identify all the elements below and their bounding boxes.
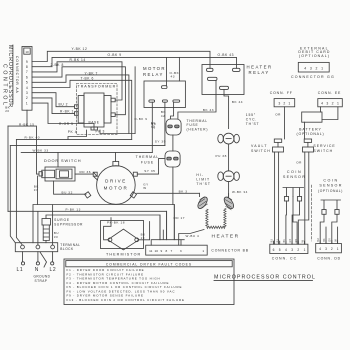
heater relay K2 — [202, 64, 273, 94]
svg-text:3: 3 — [278, 101, 280, 105]
svg-text:2: 2 — [283, 101, 285, 105]
svg-text:TRANSFORMER: TRANSFORMER — [78, 85, 117, 89]
wires EE to battery — [321, 107, 338, 120]
svg-text:1: 1 — [26, 101, 28, 105]
svg-text:5: 5 — [26, 81, 28, 85]
svg-text:20: 20 — [5, 109, 9, 113]
svg-text:BK 44: BK 44 — [232, 100, 243, 104]
svg-text:42: 42 — [161, 114, 165, 118]
svg-text:BU 32: BU 32 — [62, 190, 73, 194]
svg-text:MOTOR: MOTOR — [104, 186, 129, 191]
svg-text:11: 11 — [149, 249, 152, 253]
svg-text:5: 5 — [279, 248, 281, 252]
svg-text:CYC.: CYC. — [246, 118, 257, 122]
svg-text:BU: BU — [317, 238, 320, 242]
svg-text:R-BK 40: R-BK 40 — [25, 136, 41, 140]
wire PK 3 — [100, 130, 135, 134]
svg-text:O-BK 9: O-BK 9 — [134, 117, 147, 121]
wire thermal fuse heater to thermal fuse — [172, 135, 174, 151]
svg-text:THERMAL: THERMAL — [136, 155, 160, 159]
svg-text:RD: RD — [295, 239, 298, 243]
connector BB — [146, 205, 208, 256]
microprocessor control title (bottom) — [214, 274, 316, 280]
connector AA — [22, 47, 32, 111]
svg-text:W-BK 33: W-BK 33 — [33, 149, 49, 153]
svg-text:F13 - BLOCKED COIN 2 OR CONTR: F13 - BLOCKED COIN 2 OR CONTROL CIRCUIT … — [67, 298, 185, 302]
motor relay K1 — [143, 66, 185, 107]
CC pin stubs — [274, 241, 305, 244]
wire BK 44 (heater relay to cycling thermostat) — [224, 89, 229, 128]
wire BU 2 (AA pin3 to transformer) — [32, 93, 75, 107]
svg-text:TH’ST: TH’ST — [246, 122, 260, 126]
external debit card connector GG (optional) — [298, 46, 330, 58]
svg-text:(OPTIONAL): (OPTIONAL) — [296, 132, 324, 136]
thermistor enclosure — [101, 221, 144, 249]
wire T-BK 6 — [32, 80, 132, 139]
svg-text:4: 4 — [319, 247, 321, 251]
svg-text:BK: BK — [323, 238, 326, 242]
svg-text:GY: GY — [289, 239, 292, 243]
svg-text:FUSE: FUSE — [141, 160, 154, 164]
ground strap — [40, 252, 47, 267]
svg-text:4: 4 — [304, 66, 306, 70]
wire R-BK 1 (AA pin2 to transformer) — [32, 98, 75, 114]
wire O-BK 9 / O-BK 43 (AA to motor relay coil and heater relay) — [32, 57, 237, 85]
svg-text:8: 8 — [26, 65, 28, 69]
thermistor RT1 — [104, 218, 150, 250]
svg-text:BK 3: BK 3 — [179, 190, 188, 194]
battery (optional) — [302, 112, 322, 122]
wire BK 3 (motor to heater) — [137, 192, 200, 194]
svg-text:W: W — [143, 186, 146, 190]
svg-text:4: 4 — [26, 86, 28, 90]
svg-text:HEATER: HEATER — [247, 64, 273, 69]
svg-text:37: 37 — [34, 188, 38, 192]
wire to motor relay coil 2 — [178, 57, 180, 81]
svg-text:4: 4 — [321, 101, 323, 105]
svg-text:(OPTIONAL): (OPTIONAL) — [318, 189, 343, 193]
wire W-BK 33 — [21, 152, 152, 167]
svg-text:CONNECTOR AA: CONNECTOR AA — [15, 56, 19, 94]
wire R-BK 14 (AA to transformer) — [32, 62, 122, 100]
svg-text:(OPTIONAL): (OPTIONAL) — [299, 54, 330, 58]
svg-text:BU: BU — [270, 239, 273, 243]
wire R-OR 5 (AA pin1 to transformer base) — [32, 103, 94, 129]
terminal block — [15, 243, 57, 252]
svg-text:CONNECTOR BB: CONNECTOR BB — [211, 248, 248, 252]
svg-text:SWITCH: SWITCH — [251, 149, 271, 153]
wire PK 4 — [68, 130, 87, 139]
wire RD 36 (door switch to motor) — [75, 173, 93, 175]
svg-text:PK 3: PK 3 — [96, 129, 105, 133]
svg-text:6: 6 — [26, 75, 28, 79]
svg-text:CONNECTOR GG: CONNECTOR GG — [291, 75, 335, 79]
wire P-BK 13 left vertical — [7, 126, 9, 211]
svg-text:7: 7 — [26, 70, 28, 74]
wire SY 35 (fuse to motor) — [159, 159, 173, 205]
L1 N L2 leads — [21, 252, 53, 265]
svg-text:CONN. CC: CONN. CC — [272, 257, 297, 261]
svg-text:R-BK 1: R-BK 1 — [60, 110, 74, 114]
svg-text:Y-BK 7: Y-BK 7 — [85, 71, 98, 75]
thermal fuse — [165, 151, 180, 167]
svg-text:2-BK 8: 2-BK 8 — [51, 63, 64, 67]
wire Y-BK 7 — [32, 75, 129, 134]
DD pin stubs — [320, 241, 337, 244]
svg-text:SY 35: SY 35 — [144, 169, 155, 173]
svg-text:43: 43 — [171, 74, 176, 78]
svg-text:O-BK 43: O-BK 43 — [218, 53, 235, 57]
svg-text:DRIVE: DRIVE — [105, 178, 127, 183]
svg-text:HI-: HI- — [196, 173, 204, 177]
wire battery to service switch — [304, 122, 306, 139]
vault switch — [273, 139, 284, 244]
svg-text:19: 19 — [141, 236, 145, 240]
svg-text:L1: L1 — [17, 267, 24, 273]
connector AA label (rotated) — [15, 56, 19, 94]
svg-text:TH’ST: TH’ST — [196, 182, 211, 186]
svg-text:RELAY: RELAY — [143, 72, 164, 77]
svg-text:COIN: COIN — [323, 179, 338, 183]
svg-text:SENSOR: SENSOR — [319, 184, 342, 188]
svg-text:3: 3 — [26, 91, 28, 95]
svg-text:3: 3 — [325, 247, 327, 251]
svg-text:155°: 155° — [246, 113, 256, 117]
transformer T1 — [75, 84, 118, 135]
svg-text:7: 7 — [171, 249, 173, 253]
svg-text:SERVICE: SERVICE — [313, 144, 335, 148]
heater element coil — [206, 208, 226, 228]
svg-text:1: 1 — [337, 247, 339, 251]
svg-text:N: N — [35, 267, 39, 273]
coin sensor — [283, 170, 306, 179]
svg-text:BASE: BASE — [89, 120, 100, 124]
svg-text:SY 39: SY 39 — [155, 139, 166, 143]
svg-text:1: 1 — [304, 248, 306, 252]
svg-text:9: 9 — [26, 60, 28, 64]
wire Y-BK 12 (AA to heater relay) — [32, 51, 210, 68]
svg-text:6: 6 — [273, 248, 275, 252]
fault code table — [64, 259, 234, 305]
DD pin wire labels — [317, 238, 337, 242]
wire SY 35 to motor tab — [137, 173, 158, 175]
svg-text:1: 1 — [202, 249, 204, 253]
svg-text:CONN. DD: CONN. DD — [317, 257, 341, 261]
svg-text:P-BK 13: P-BK 13 — [66, 207, 81, 211]
wire BU 32 (door switch to motor) — [54, 181, 86, 194]
svg-text:BU 2: BU 2 — [59, 103, 69, 107]
svg-text:W-BU 4: W-BU 4 — [186, 234, 200, 238]
svg-text:SENSOR: SENSOR — [283, 175, 306, 179]
cycling thermostat 155 deg — [218, 133, 240, 144]
wire 2-BK 8 — [32, 67, 125, 115]
svg-text:PU: PU — [277, 239, 280, 243]
svg-text:OR: OR — [275, 113, 281, 117]
svg-text:2: 2 — [26, 96, 28, 100]
drive motor M1 — [85, 161, 138, 204]
bus to surge suppressor — [46, 215, 160, 240]
svg-text:STRAP: STRAP — [35, 279, 48, 283]
wires from motor relay contacts down — [152, 102, 173, 152]
wire R-BK 40 — [16, 138, 131, 140]
svg-text:L2: L2 — [50, 267, 57, 273]
svg-text:SUPPRESSOR: SUPPRESSOR — [54, 222, 83, 226]
svg-text:OR: OR — [296, 160, 302, 164]
connector DD — [316, 244, 342, 253]
feed diagonals into terminal block — [10, 139, 22, 244]
bus P-BK 13 — [8, 211, 167, 245]
wire W-BK 34 (hi-limit to heater) — [228, 182, 230, 197]
wire W-BU 4 (heater to connector BB) — [179, 230, 204, 240]
microprocessor control title (left, rotated) — [2, 45, 13, 108]
svg-text:(HEATER): (HEATER) — [187, 127, 209, 131]
svg-text:Y-BK 12: Y-BK 12 — [72, 47, 88, 51]
wire drop to PK 3 net — [134, 67, 136, 134]
svg-text:COMMERCIAL DRYER FAULT CODES: COMMERCIAL DRYER FAULT CODES — [106, 262, 192, 266]
svg-text:MICROPROCESSOR CONTROL: MICROPROCESSOR CONTROL — [214, 274, 316, 280]
svg-text:BK 43: BK 43 — [203, 108, 214, 112]
svg-text:40: 40 — [151, 125, 155, 129]
svg-text:R-OR 5: R-OR 5 — [59, 122, 73, 126]
svg-text:THERMISTOR: THERMISTOR — [106, 252, 141, 256]
coin sensor 2 (optional) — [318, 179, 343, 194]
service switch — [298, 139, 313, 244]
svg-text:MOTOR: MOTOR — [143, 66, 166, 71]
svg-text:HEATER: HEATER — [212, 233, 240, 239]
svg-text:10: 10 — [154, 249, 158, 253]
svg-text:PU 38: PU 38 — [216, 154, 227, 158]
svg-text:8: 8 — [166, 249, 168, 253]
svg-text:R-BK 14: R-BK 14 — [70, 58, 86, 62]
wire PU 38 (cyc to hi-limit) — [228, 144, 230, 171]
connector FF — [270, 91, 293, 95]
svg-text:BLOCK: BLOCK — [60, 247, 74, 251]
svg-text:PK-BK 18: PK-BK 18 — [107, 220, 125, 224]
optional section divider — [310, 185, 312, 241]
bus L1 — [33, 205, 174, 246]
svg-text:DOOR SWITCH: DOOR SWITCH — [44, 158, 81, 163]
thermal fuse (heater) — [166, 119, 181, 135]
svg-text:R-BK 15: R-BK 15 — [19, 122, 35, 126]
wire R-BK 15 — [8, 110, 39, 174]
svg-text:VAULT: VAULT — [251, 144, 268, 148]
wire BK 43 (heater relay to thermal fuse) — [178, 95, 216, 120]
svg-text:2: 2 — [331, 247, 333, 251]
svg-text:LIMIT: LIMIT — [196, 177, 210, 181]
connector CC — [270, 244, 308, 253]
svg-text:COIN: COIN — [287, 170, 302, 174]
wire FF to vault switch — [284, 107, 286, 139]
svg-text:2: 2 — [332, 101, 334, 105]
svg-text:BK: BK — [283, 239, 286, 243]
svg-text:SWITCH: SWITCH — [313, 149, 333, 153]
svg-text:O-BK 9: O-BK 9 — [108, 53, 122, 57]
svg-text:1: 1 — [337, 101, 339, 105]
svg-text:3: 3 — [310, 66, 312, 70]
CC pin wire labels — [270, 239, 304, 243]
svg-text:1: 1 — [288, 101, 290, 105]
hi-limit thermostat — [218, 171, 240, 182]
svg-text:RELAY: RELAY — [249, 70, 270, 75]
svg-text:3: 3 — [180, 249, 182, 253]
svg-text:T-BK 6: T-BK 6 — [81, 77, 94, 81]
svg-text:10: 10 — [25, 50, 29, 54]
wire V-BK 41 — [10, 145, 165, 147]
svg-text:9: 9 — [161, 249, 163, 253]
svg-text:CONN. EE: CONN. EE — [318, 91, 341, 95]
wire BK 37 — [37, 176, 39, 205]
wire heater relay contact down — [215, 80, 217, 94]
surge suppressor — [42, 219, 51, 243]
door switch — [39, 167, 75, 181]
svg-text:CONN. FF: CONN. FF — [270, 91, 293, 95]
heater lead insulator right — [222, 194, 235, 211]
svg-text:3: 3 — [326, 101, 328, 105]
svg-text:2: 2 — [315, 66, 317, 70]
svg-text:4: 4 — [285, 248, 287, 252]
svg-text:3: 3 — [291, 248, 293, 252]
heater lead insulator left — [196, 193, 209, 210]
svg-text:1: 1 — [321, 66, 323, 70]
svg-text:RD 17: RD 17 — [174, 216, 186, 220]
svg-text:GY: GY — [329, 238, 332, 242]
svg-text:2: 2 — [297, 248, 299, 252]
svg-text:RD 36: RD 36 — [80, 170, 92, 174]
svg-text:BATTERY: BATTERY — [299, 127, 322, 131]
svg-text:33: 33 — [54, 235, 58, 239]
svg-text:PK 4: PK 4 — [68, 130, 77, 134]
svg-text:W-BK 34: W-BK 34 — [232, 190, 248, 194]
connector EE — [318, 91, 341, 95]
svg-text:CONTROL: CONTROL — [2, 64, 8, 108]
